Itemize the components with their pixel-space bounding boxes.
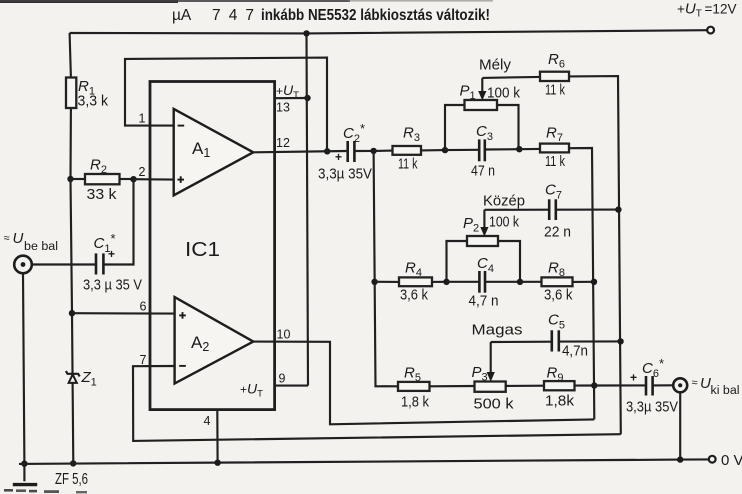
node input ground junction — [21, 461, 27, 467]
capacitor C3 — [445, 123, 495, 180]
svg-text:1,8 k: 1,8 k — [401, 395, 430, 411]
pin 13 label and +UT — [276, 82, 299, 115]
svg-text:1: 1 — [139, 112, 146, 126]
wire node to A1 plus input pin 2 — [134, 178, 174, 181]
resistor R6 — [540, 51, 569, 99]
svg-text:+: + — [108, 247, 115, 261]
svg-text:1,8k: 1,8k — [545, 394, 575, 410]
resistor R5 — [398, 365, 430, 411]
svg-text:13: 13 — [276, 101, 290, 115]
svg-text:100 k: 100 k — [489, 215, 520, 231]
svg-text:C6*: C6* — [642, 356, 664, 380]
svg-text:11 k: 11 k — [398, 157, 418, 173]
svg-text:4: 4 — [204, 414, 211, 428]
potentiometer P3 — [472, 342, 515, 413]
op-amp A2 — [175, 297, 254, 383]
node mid on rail A — [591, 279, 597, 285]
wire C6 to output terminal — [653, 384, 673, 386]
svg-text:R7: R7 — [546, 125, 563, 145]
svg-text:9: 9 — [279, 372, 286, 386]
pin 9 label and +UT — [240, 372, 286, 400]
resistor R8 — [520, 260, 573, 304]
svg-text:+: + — [630, 371, 637, 385]
svg-text:+UT: +UT — [240, 381, 263, 400]
wire +UT vertical rail — [307, 33, 309, 385]
node bias junction at R2 — [67, 176, 73, 182]
svg-text:500 k: 500 k — [474, 397, 515, 413]
svg-text:R3: R3 — [403, 125, 420, 145]
node network input — [370, 148, 376, 154]
capacitor C1 — [83, 231, 142, 294]
wire A1 output pin 12 — [253, 151, 346, 152]
svg-text:3,3 µ 35 V: 3,3 µ 35 V — [83, 278, 142, 294]
wire pin 7 inverting input feedback — [133, 366, 621, 441]
wire output terminal down to ground — [679, 392, 681, 459]
node mid left — [443, 279, 449, 285]
svg-text:ZF 5,6: ZF 5,6 — [55, 471, 88, 488]
svg-text:0 V: 0 V — [721, 452, 742, 469]
node mid right — [517, 279, 523, 285]
capacitor C4 — [447, 255, 499, 310]
node bias rail to ground — [70, 460, 76, 466]
svg-text:22 n: 22 n — [544, 225, 571, 241]
svg-text:µA: µA — [172, 7, 192, 24]
terminal 0V — [709, 452, 742, 469]
potentiometer P2 — [447, 210, 521, 282]
node pin4 ground junction — [214, 460, 220, 466]
svg-text:100 k: 100 k — [487, 86, 521, 102]
svg-text:3,3µ 35V: 3,3µ 35V — [318, 167, 372, 183]
svg-text:inkább NE5532 lábkiosztás vált: inkább NE5532 lábkiosztás változik! — [261, 7, 490, 24]
svg-text:+UT =12V: +UT =12V — [677, 1, 736, 20]
svg-text:C7: C7 — [545, 182, 562, 202]
wire pin 9 to +UT rail — [275, 385, 308, 387]
node R2/C1/pin2 junction — [130, 176, 136, 182]
svg-text:R8: R8 — [548, 260, 565, 280]
svg-text:≈: ≈ — [692, 377, 698, 389]
wire R2 to node 2 — [120, 178, 134, 180]
potentiometer P1 — [445, 78, 521, 150]
wire C2 to network input node — [354, 150, 373, 152]
svg-text:11 k: 11 k — [545, 83, 566, 99]
wire A1 feedback loop pin1 — [125, 58, 327, 152]
wire top +UT supply rail — [70, 30, 707, 33]
node feedback to output — [324, 148, 330, 154]
wire R4 to mid node A — [432, 281, 447, 283]
wire A2 output pin 10 — [253, 342, 594, 425]
wire C3 to bass node B — [486, 148, 520, 150]
scan artifact top bar — [0, 0, 493, 3]
node output ground junction — [677, 456, 683, 462]
wire R3 to bass node A — [421, 149, 445, 151]
svg-text:R5: R5 — [404, 365, 421, 385]
capacitor C6 — [626, 356, 678, 416]
node C5 on rail B — [617, 338, 623, 344]
svg-text:10: 10 — [277, 328, 291, 342]
svg-text:7: 7 — [140, 353, 147, 367]
node left rail mid row — [371, 279, 377, 285]
title text — [172, 7, 490, 24]
wire input to C1 — [32, 263, 95, 265]
resistor R2 — [71, 157, 120, 204]
node pin6 junction — [69, 310, 75, 316]
svg-text:Mély: Mély — [479, 57, 512, 74]
resistor R7 — [519, 125, 569, 171]
capacitor C7 — [484, 182, 618, 241]
svg-text:R9: R9 — [547, 365, 564, 385]
svg-text:6: 6 — [140, 300, 147, 314]
wire P1 wiper to R6 — [482, 77, 540, 78]
resistor R9 — [544, 365, 575, 410]
svg-text:3,3 k: 3,3 k — [78, 94, 109, 110]
svg-text:ki bal: ki bal — [711, 385, 740, 397]
svg-text:+: + — [335, 150, 342, 164]
wire input terminal down to ground — [23, 273, 24, 463]
svg-text:3,3µ 35V: 3,3µ 35V — [626, 400, 678, 416]
svg-text:be bal: be bal — [24, 241, 58, 253]
ground wire 0V bottom rail — [19, 459, 709, 464]
svg-text:P2: P2 — [463, 215, 479, 235]
wire pin 4 to ground — [216, 410, 218, 463]
svg-text:4,7 n: 4,7 n — [469, 294, 499, 310]
wire left bias rail — [70, 33, 71, 78]
wire R6 to feedback rail B — [569, 76, 621, 434]
capacitor C5 — [491, 312, 621, 360]
wire bias rail down to zener — [71, 179, 74, 463]
op-amp block IC1 outline — [150, 82, 275, 410]
wire output node to C6 — [594, 384, 645, 386]
output terminal Uki — [673, 375, 739, 397]
ground symbol — [13, 464, 88, 488]
svg-text:747: 747 — [212, 7, 254, 24]
node C7 on rail B — [615, 206, 621, 212]
svg-text:47 n: 47 n — [471, 164, 495, 180]
wire pin 13 to +UT rail — [275, 97, 308, 99]
svg-text:12: 12 — [276, 136, 290, 150]
resistor R3 — [374, 125, 421, 173]
svg-text:3,6 k: 3,6 k — [544, 288, 573, 304]
svg-text:C2*: C2* — [343, 121, 365, 145]
svg-text:P3: P3 — [472, 364, 488, 384]
wire network left rail — [374, 151, 398, 386]
input terminal Ube — [4, 230, 59, 273]
svg-text:R4: R4 — [405, 260, 422, 280]
svg-text:Magas: Magas — [472, 322, 523, 339]
node +UT on top wire — [303, 30, 309, 36]
wire C1 up to node 2 — [103, 179, 133, 264]
resistor R4 — [375, 260, 432, 304]
resistor R1 — [66, 78, 109, 110]
svg-text:11 k: 11 k — [545, 154, 566, 170]
terminal +UT — [707, 27, 714, 34]
wire C4 to mid node B — [486, 281, 520, 283]
node bass right — [516, 146, 522, 152]
svg-text:C5: C5 — [548, 312, 565, 332]
svg-text:4,7n: 4,7n — [562, 344, 588, 360]
wire P3 to R9 — [506, 385, 544, 387]
wire R9 to output node — [575, 384, 595, 386]
wire R8 to rail A — [573, 281, 595, 283]
wire R5 to P3 — [430, 385, 475, 387]
node treble row to A2 output — [591, 382, 597, 388]
svg-text:IC1: IC1 — [185, 239, 220, 261]
svg-text:R2: R2 — [90, 157, 107, 177]
svg-text:Közép: Közép — [483, 193, 525, 210]
wire R1 bottom to R2 node — [69, 108, 72, 179]
svg-text:U: U — [700, 375, 711, 392]
svg-text:U: U — [13, 230, 24, 247]
wire pin 6 from bias rail — [72, 312, 175, 315]
capacitor C2 — [318, 121, 372, 183]
node pin13 on +UT rail — [304, 95, 310, 101]
svg-text:P1: P1 — [460, 83, 476, 103]
svg-text:2: 2 — [139, 165, 146, 179]
wire R7 to rail A — [569, 148, 594, 419]
svg-text:≈: ≈ — [4, 233, 10, 245]
op-amp A1 — [174, 109, 254, 195]
svg-text:33 k: 33 k — [87, 187, 118, 203]
node bass left — [442, 147, 448, 153]
svg-text:R6: R6 — [548, 51, 565, 71]
node +UT=12V label — [677, 1, 736, 20]
scan artifact bottom marks — [4, 489, 87, 493]
svg-text:Z1: Z1 — [81, 369, 97, 389]
svg-text:3,6 k: 3,6 k — [400, 288, 429, 304]
zener Z1 — [66, 369, 97, 389]
